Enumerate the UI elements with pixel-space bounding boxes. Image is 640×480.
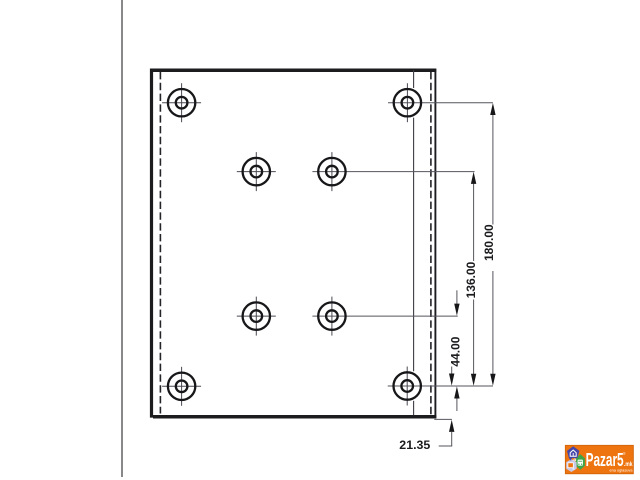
extension line row3 (to 44.00) — [312, 315, 457, 317]
svg-text:21.35: 21.35 — [399, 438, 430, 452]
svg-text:180.00: 180.00 — [482, 224, 496, 261]
plate left edge — [150, 69, 153, 418]
dimension 21.35 (outside arrows) — [451, 367, 453, 374]
dim 44 top outside arrow — [454, 304, 459, 316]
dim 136 top arrow — [471, 172, 476, 184]
dimension 136.00 line — [473, 183, 475, 261]
hole B2 row2-right — [331, 152, 333, 191]
plate top edge — [153, 68, 436, 72]
lining right edge (inner vertical, broken at holes) — [413, 70, 415, 88]
extension line row4 (bottom holes) — [388, 385, 493, 387]
logo green hexagon — [576, 454, 585, 470]
extension line bottom edge (to 21.35) — [434, 418, 452, 420]
logo vehicle icon — [578, 460, 583, 466]
hole B1 row2-left — [237, 152, 276, 191]
svg-text:ena oglasuva: ena oglasuva — [610, 468, 634, 473]
hole C2 row3-right — [331, 297, 333, 336]
dim 21.35 top outside arrow — [449, 374, 454, 386]
logo lavender hexagon — [566, 459, 576, 472]
logo box — [565, 445, 633, 473]
extension line row1 (to 180.00) — [388, 102, 493, 104]
dim 21.35 leader — [439, 445, 453, 447]
hole A2 top-right — [406, 83, 408, 122]
hole D2 bottom-right — [406, 367, 408, 406]
svg-text:®: ® — [623, 452, 626, 456]
dim 136 bottom arrow — [471, 374, 476, 386]
hole D1 bottom-left — [162, 367, 201, 406]
dimension 44.00 (outside arrows) — [456, 290, 458, 304]
hole A1 top-left — [162, 83, 201, 122]
Pazar5 logo — [565, 445, 633, 473]
dim 44 bottom outside arrow — [454, 386, 459, 398]
hidden line left (dashed) — [159, 72, 161, 414]
logo blue pentagon — [567, 446, 579, 461]
svg-text:44.00: 44.00 — [449, 336, 463, 366]
dim 180 bottom arrow — [490, 374, 495, 386]
hidden line right (dashed) — [430, 72, 432, 415]
extension line row2 (to 136.00) — [312, 171, 474, 173]
logo house icon — [570, 450, 576, 456]
plate bottom edge — [153, 415, 436, 419]
dim 180 top arrow — [490, 103, 495, 115]
plate right outer edge — [434, 69, 436, 419]
hole C1 row3-left — [237, 297, 276, 336]
dim 21.35 bottom outside arrow — [449, 420, 454, 432]
logo monitor icon — [568, 463, 573, 468]
logo white dot — [574, 459, 576, 461]
dimension 180.00 line — [492, 114, 494, 225]
svg-text:136.00: 136.00 — [464, 261, 478, 298]
frame border line — [121, 0, 123, 477]
